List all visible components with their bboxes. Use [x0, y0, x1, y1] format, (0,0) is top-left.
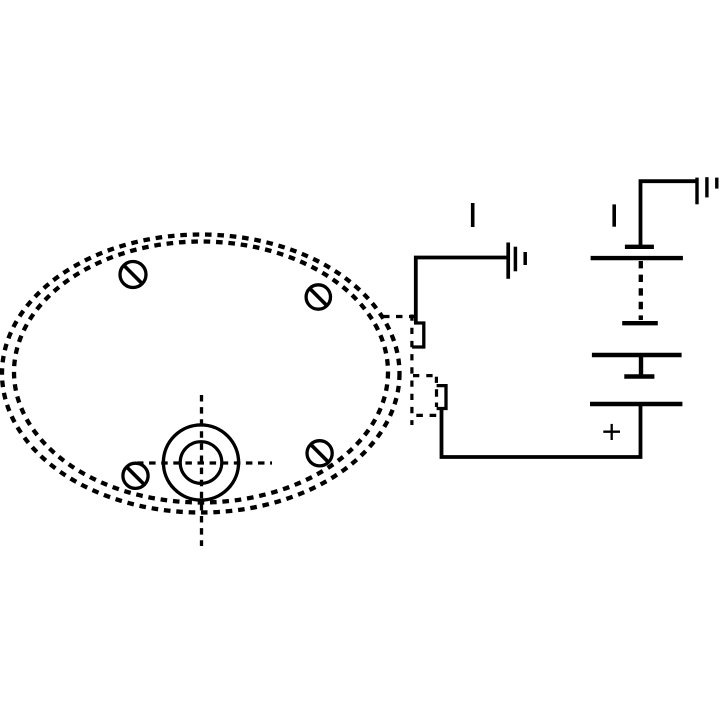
centerline horizontal dashed: [137, 461, 272, 464]
shaft hub outer circle: [163, 425, 238, 500]
ground symbol middle bar 1: [506, 243, 510, 279]
shaft hub inner circle: [180, 442, 222, 484]
current label I right: [612, 204, 616, 226]
battery cell 1 long plate: [591, 256, 683, 260]
battery cell 2 short plate: [622, 321, 658, 325]
lower terminal dashed box top edge: [413, 374, 435, 377]
ground symbol middle bar 3: [523, 252, 527, 265]
ground symbol middle bar 2: [514, 247, 518, 272]
terminal tab lower (solid bracket): [437, 386, 446, 409]
motor housing inner dashed ellipse: [14, 242, 388, 503]
battery inter-cell stub: [639, 355, 643, 375]
battery dashed link (omitted cells): [639, 261, 643, 320]
screw bottom-right: [307, 441, 332, 466]
connector housing dashed right edge: [410, 315, 413, 426]
ground symbol top-right bar 3: [715, 178, 718, 189]
wire upper terminal to ground: [416, 258, 507, 324]
lower terminal dashed box bottom edge: [416, 414, 437, 417]
ground symbol top-right bar 2: [705, 177, 708, 197]
screw top-right: [306, 285, 330, 309]
battery cell 3 long plate: [590, 402, 682, 406]
terminal tab upper (solid bracket): [412, 323, 424, 347]
ground symbol top-right bar 1: [695, 178, 698, 205]
lower terminal dashed corner piece: [435, 377, 438, 383]
plus label: [603, 424, 620, 440]
current label I left: [471, 203, 475, 227]
wire battery top to ground: [641, 181, 697, 247]
battery cell 2 long plate: [592, 353, 682, 357]
wire battery positive to lower terminal: [442, 404, 641, 457]
connector housing dashed top edge: [383, 315, 414, 318]
centerline vertical dashed: [200, 395, 203, 546]
battery cell 1 short plate: [625, 245, 654, 249]
screw top-left: [120, 262, 146, 288]
lower terminal hidden dashed stub: [435, 389, 438, 407]
screw bottom-left: [123, 463, 148, 488]
battery cell 3 short plate: [624, 374, 654, 378]
motor housing outer dashed ellipse: [2, 235, 400, 513]
